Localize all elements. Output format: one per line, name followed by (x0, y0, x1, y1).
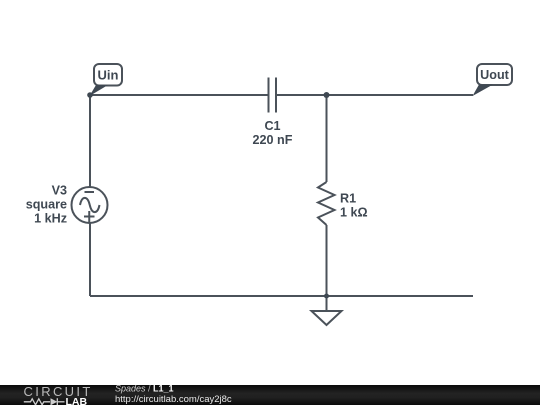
svg-text:Uin: Uin (98, 68, 119, 83)
svg-text:C1: C1 (264, 119, 280, 133)
svg-text:220 nF: 220 nF (253, 133, 293, 147)
svg-text:1 kHz: 1 kHz (34, 212, 67, 226)
svg-text:R1: R1 (340, 192, 356, 206)
svg-text:Spades / L1_1: Spades / L1_1 (115, 385, 174, 394)
svg-text:V3: V3 (52, 184, 67, 198)
svg-text:square: square (26, 198, 67, 212)
svg-text:http://circuitlab.com/cay2j8c: http://circuitlab.com/cay2j8c (115, 394, 232, 405)
svg-text:LAB: LAB (66, 396, 88, 405)
svg-text:Uout: Uout (480, 68, 509, 82)
svg-text:1 kΩ: 1 kΩ (340, 206, 368, 220)
